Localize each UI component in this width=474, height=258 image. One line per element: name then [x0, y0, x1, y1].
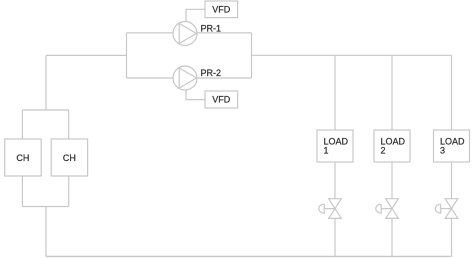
- wire PR-2 suction: [127, 77, 174, 79]
- svg-text:1: 1: [324, 146, 329, 156]
- load box LOAD 2: [374, 130, 410, 162]
- load box LOAD 3: [434, 130, 470, 162]
- wire LOAD1 to valve: [334, 162, 336, 199]
- wire CH top header: [22, 109, 68, 111]
- svg-text:CH: CH: [16, 153, 29, 163]
- node pump suction manifold: [126, 33, 128, 78]
- valve V1 (2-way control valve): [319, 199, 341, 219]
- wire suction riser left vertical: [45, 55, 47, 110]
- wire suction header horizontal: [46, 54, 127, 56]
- wire return header bottom: [46, 255, 452, 257]
- wire PR-1 VFD stub: [186, 9, 205, 21]
- valve V2 (2-way control valve): [376, 199, 399, 219]
- wire CH bottom header: [22, 206, 68, 208]
- wire LOAD2 supply drop: [391, 55, 393, 130]
- wire LOAD2 to valve: [391, 162, 393, 199]
- wire supply header: [252, 54, 452, 56]
- chiller CH2 box: [51, 139, 87, 176]
- VFD box 1: [205, 1, 238, 18]
- svg-text:PR-1: PR-1: [201, 23, 222, 33]
- wire CH1 riser bottom: [21, 176, 23, 207]
- svg-text:3: 3: [440, 146, 445, 156]
- load box LOAD 1: [317, 130, 353, 162]
- wire PR-2 discharge: [197, 77, 252, 79]
- wire CH2 riser bottom: [68, 176, 70, 207]
- svg-text:CH: CH: [63, 153, 76, 163]
- valve V3 (2-way control valve): [435, 199, 457, 219]
- VFD box 2: [205, 91, 238, 108]
- svg-text:VFD: VFD: [212, 95, 231, 105]
- wire return riser left vertical: [45, 207, 47, 257]
- chiller CH1 box: [5, 139, 42, 176]
- pump PR-2: [173, 66, 197, 90]
- wire LOAD3 supply drop: [451, 55, 453, 130]
- wire PR-2 VFD stub: [186, 90, 205, 100]
- svg-text:2: 2: [381, 146, 386, 156]
- wire LOAD3 to valve: [451, 162, 453, 199]
- wire valve1 to return: [334, 218, 336, 256]
- node pump discharge manifold: [251, 33, 253, 78]
- wire CH1 riser top: [21, 110, 23, 139]
- wire valve3 to return: [451, 218, 453, 256]
- wire PR-1 discharge: [197, 32, 252, 34]
- wire PR-1 suction: [127, 32, 174, 34]
- wire CH2 riser top: [68, 110, 70, 139]
- svg-text:PR-2: PR-2: [201, 68, 222, 78]
- wire valve2 to return: [391, 218, 393, 256]
- svg-text:VFD: VFD: [212, 5, 231, 15]
- wire LOAD1 supply drop: [334, 55, 336, 130]
- pump PR-1: [173, 22, 197, 46]
